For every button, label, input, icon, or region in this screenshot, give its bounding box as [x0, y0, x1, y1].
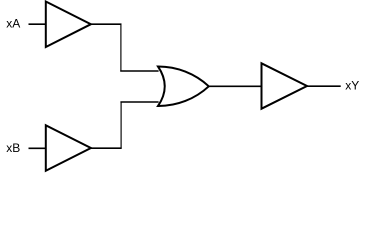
svg-text:xY: xY [345, 78, 359, 92]
svg-text:xB: xB [6, 141, 20, 155]
svg-text:xA: xA [6, 17, 20, 31]
